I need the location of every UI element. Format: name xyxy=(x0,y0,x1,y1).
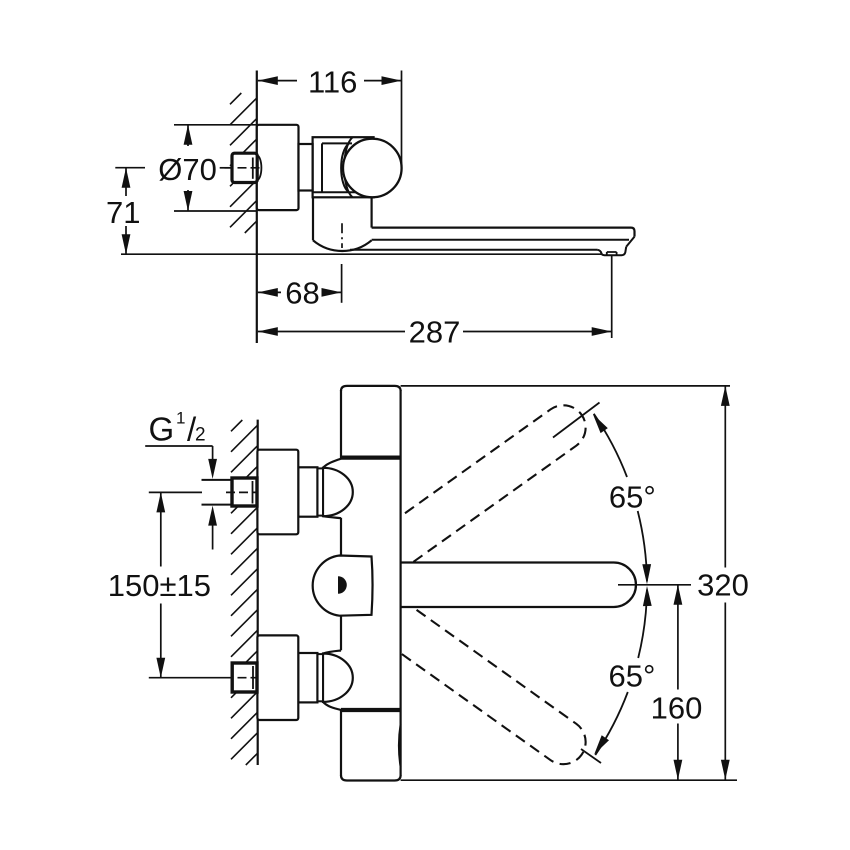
G 1/2 pointer arrows xyxy=(212,446,214,465)
mixer body (top view) xyxy=(313,137,374,197)
top inlet centerline xyxy=(149,491,202,493)
centerline through union (top view) xyxy=(220,167,231,169)
union neck xyxy=(317,654,323,701)
dimension 71 xyxy=(115,167,145,169)
swing arc upper xyxy=(594,414,627,477)
union nut xyxy=(298,467,317,516)
dimension 287 xyxy=(611,256,613,338)
spout (top view) xyxy=(372,228,635,237)
wall escutcheon plate xyxy=(257,450,298,535)
svg-text:1: 1 xyxy=(176,409,185,428)
swing arc lower xyxy=(638,590,647,658)
svg-text:Ø70: Ø70 xyxy=(158,152,217,187)
solid spout (front view) xyxy=(399,563,636,608)
spout shaft edge arc on lower body xyxy=(399,724,401,767)
dashed spout swung down 35.5deg xyxy=(376,600,594,773)
bottom wall square (front view) xyxy=(232,663,257,692)
svg-text:287: 287 xyxy=(409,315,461,350)
pivot centerline (top view) xyxy=(341,223,343,248)
centerline tick at lower dashed spout end xyxy=(581,749,601,763)
dimension 68 xyxy=(258,291,281,293)
supply pipe (front view) xyxy=(202,479,233,481)
svg-text:65°: 65° xyxy=(609,480,656,515)
top view: wall line xyxy=(256,71,258,344)
bottom inlet centerline xyxy=(149,677,232,679)
union neck xyxy=(317,468,323,515)
bottom view: wall line xyxy=(257,420,259,765)
wall union square (top view) xyxy=(257,155,262,180)
svg-text:71: 71 xyxy=(106,195,140,230)
svg-text:150±15: 150±15 xyxy=(108,568,211,603)
spout aerator (top view) xyxy=(598,247,627,255)
centerline tick at upper dashed spout end xyxy=(553,403,600,438)
temperature knob (front view) xyxy=(313,556,373,616)
svg-text:160: 160 xyxy=(651,690,703,725)
svg-text:2: 2 xyxy=(195,424,206,445)
knob face circle (top view) xyxy=(343,139,402,198)
inlet union dome xyxy=(323,468,353,516)
bottom view: wall hatching xyxy=(231,420,242,431)
baseline (mounting reference) xyxy=(121,253,601,255)
escutcheon (top view) xyxy=(257,125,299,210)
svg-text:68: 68 xyxy=(285,276,319,311)
wall escutcheon plate xyxy=(257,635,298,720)
neck between escutcheon and body (top view) xyxy=(299,144,313,191)
knob marker xyxy=(338,576,347,594)
dimension 116 xyxy=(401,71,403,167)
union nut xyxy=(298,653,317,702)
svg-text:116: 116 xyxy=(308,64,357,99)
top view: wall hatching xyxy=(230,93,241,104)
dimension 70 (diameter) xyxy=(174,124,257,126)
svg-text:65°: 65° xyxy=(609,659,656,694)
dimension 320 xyxy=(724,386,726,568)
extension lines right side xyxy=(401,385,730,387)
faucet pivot housing (top view) xyxy=(312,197,314,240)
dimension 150 +/- 15 xyxy=(160,492,162,566)
dashed spout swung up 35.5deg xyxy=(376,397,594,570)
cap joint lines (front view) xyxy=(341,456,401,460)
dimension 160 xyxy=(677,585,679,690)
svg-text:320: 320 xyxy=(697,568,749,603)
top wall square (front view) xyxy=(232,478,257,506)
mixer body (front view) xyxy=(341,386,401,781)
knob cone arcs (top view) xyxy=(344,137,352,197)
svg-text:G: G xyxy=(149,410,175,447)
inlet union dome xyxy=(323,654,353,702)
